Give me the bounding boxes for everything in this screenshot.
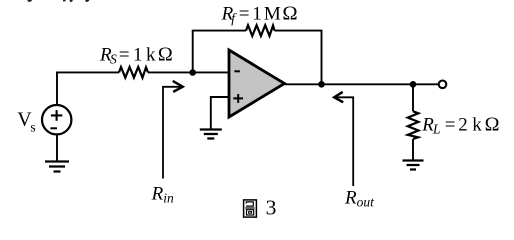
ground (op-amp + input): [200, 130, 222, 139]
wire: load branch vertical: [412, 84, 414, 160]
node: output junction dot (feedback tap): [318, 81, 325, 88]
resistor RL zigzag (vertical): [408, 111, 419, 139]
wire: feedback left vertical: [192, 31, 194, 73]
Rout measurement arrow: [335, 97, 353, 186]
resistor Rf zigzag: [246, 25, 275, 36]
wire: feedback right vertical down to output node: [321, 31, 323, 85]
svg-text:Rf=1MΩ: Rf=1MΩ: [221, 2, 298, 25]
ground (load): [403, 161, 424, 170]
voltage source VS circle: [42, 105, 71, 134]
resistor RS zigzag: [119, 67, 148, 78]
wire: Vs bottom to ground: [56, 134, 58, 161]
op-amp minus sign: [234, 70, 240, 72]
op-amp plus sign: [233, 94, 243, 103]
svg-text:Vs: Vs: [17, 109, 35, 135]
wire: main input horizontal from Vs top to op-amp inverting input: [57, 71, 229, 73]
node A junction dot between RS and inverting input: [189, 69, 196, 76]
VS plus sign: [51, 110, 62, 121]
caption: figure glyph (drawn CJK 圖): [244, 200, 257, 217]
svg-text:3: 3: [266, 196, 277, 220]
ground (Vs): [45, 162, 69, 172]
node: load junction dot: [410, 81, 417, 88]
svg-text:RL=2kΩ: RL=2kΩ: [421, 114, 499, 137]
op-amp U1 triangle: [229, 50, 285, 117]
VS minus sign: [50, 127, 57, 129]
wire: left vertical from input wire down to Vs source: [56, 72, 58, 105]
wire: feedback top horizontal: [192, 30, 323, 32]
Rin measurement arrow: [163, 87, 182, 179]
wire: non-inverting input to ground: [211, 97, 229, 130]
output terminal open circle: [439, 81, 447, 89]
svg-text:RS=1kΩ: RS=1kΩ: [99, 43, 173, 66]
wire: output from op-amp apex to terminal: [285, 83, 439, 85]
cropped text fragments at top edge: [27, 0, 89, 2]
svg-text:Rin: Rin: [151, 184, 174, 206]
svg-text:Rout: Rout: [344, 187, 375, 209]
